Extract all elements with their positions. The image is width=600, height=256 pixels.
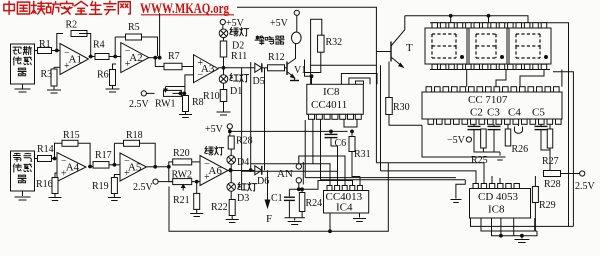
wire node to A3 minus [185,75,194,94]
wire A1 output to R4 [89,55,96,59]
7-segment digit 2 [469,28,507,64]
resistor R19 [92,178,117,194]
wire CC4011 pin down bus d [344,119,357,127]
svg-text:CD 4053: CD 4053 [478,191,519,203]
resistor R7 [164,51,182,70]
second vertical rail [380,65,382,171]
capacitor C3 [488,124,501,133]
right vertical rail B [553,72,573,222]
svg-text:D3: D3 [237,193,249,204]
vertical rail to T base [375,7,377,163]
svg-text:C1: C1 [271,193,283,204]
wire V1 collector node [304,60,306,73]
display top pin row [430,23,550,28]
right vertical rail A [550,23,569,222]
+5V terminal top [220,18,244,29]
title www.MKAQ.org (red) [140,1,234,17]
svg-text:R18: R18 [126,130,143,141]
display top wire [405,14,528,23]
svg-text:R25: R25 [471,155,488,166]
transistor T [376,16,413,67]
buzzer 蜂鸣器 [255,15,301,44]
transistor V1 [287,43,306,78]
svg-text:C5: C5 [532,107,545,119]
resistor R24 [299,189,322,211]
ground below R22 [226,216,239,223]
bus wire mid 3 [305,177,456,179]
wire +5V to green lamp D2 [222,25,224,29]
CD4053 bottom wire 1 [471,218,574,226]
CD4053 pin stubs down [501,218,514,236]
ground below R6 [106,86,120,93]
CD4053 top pins [473,184,519,189]
wire sensor to R1 [35,50,38,52]
resistor R12 [268,52,285,71]
display right wire [561,70,563,87]
2.5V terminal right [575,171,596,192]
svg-text:A1: A1 [69,54,82,66]
svg-text:R4: R4 [93,40,105,51]
svg-text:IC8: IC8 [323,86,340,98]
resistor R18 feedback [124,130,143,146]
diode D5 [253,63,265,87]
svg-text:R16: R16 [36,179,53,190]
CC4011 bottom pins [309,114,362,119]
svg-text:2.5V: 2.5V [575,181,596,192]
display wires to CC7107 [467,70,544,87]
svg-text:C6: C6 [335,138,347,149]
svg-text:R24: R24 [306,198,323,209]
green lamp D2 绿灯 [219,27,248,37]
CD4053 bottom wire 2 [481,218,535,231]
wire R20 RW2 right to A6 minus [192,162,200,194]
bus wire mid 1 [376,162,470,164]
resistor R29 [532,176,555,211]
bus wire mid 2 [381,170,467,172]
svg-text:R19: R19 [92,181,109,192]
-5V terminal [447,135,472,146]
svg-text:R31: R31 [354,149,371,160]
green lamp D4 绿灯 [205,146,250,168]
svg-text:R12: R12 [268,52,285,63]
resistor R28 (A6 branch) [228,136,252,150]
svg-text:R5: R5 [128,22,140,33]
svg-text:+5V: +5V [270,18,289,29]
svg-text:CC 7107: CC 7107 [468,94,508,106]
CC4013 bottom stem [328,213,332,233]
resistor R5 feedback [126,22,142,40]
diode D6 [255,166,269,187]
ground below V1 emitter [290,78,299,81]
wire D5 to R12 node [262,67,268,69]
potentiometer RW2 [172,170,193,191]
label D3 [237,193,249,204]
svg-text:C3: C3 [487,107,500,119]
wire junction to R20 RW2 node [160,162,173,182]
IC CD 4053 IC8 [470,189,531,219]
svg-text:R32: R32 [326,37,343,48]
wire 2.5V to RW1 [146,92,154,94]
resistor R3 [41,69,58,86]
svg-text:D1: D1 [230,86,242,97]
wire T emitter to R30 [388,62,390,98]
resistor R11 [220,41,247,62]
svg-text:A4: A4 [66,162,80,174]
label D2 [232,41,244,52]
resistor R21 [173,193,200,209]
wire A4 out to R17 [88,165,93,169]
wire junction down to R7 [155,58,164,67]
svg-text:RW2: RW2 [172,170,193,181]
svg-text:F: F [266,213,272,225]
resistor R15 feedback [62,130,80,146]
svg-text:R28: R28 [544,179,561,190]
wire C5 R27 join [541,133,550,150]
wire R2 to A1 output [79,34,91,57]
ground below gas sensor [15,84,31,92]
signal arrow F [265,170,272,225]
ground below R3 [47,86,61,93]
svg-text:R28: R28 [236,136,253,147]
CC4013 top pins [327,186,362,191]
capacitor C4 [515,124,523,133]
svg-text:A2: A2 [129,52,142,64]
svg-text:CC4011: CC4011 [311,99,347,111]
ground below R16 [49,194,62,201]
wire CC4011 pin down bus b [312,119,314,164]
wire R5 to A2 output [115,37,157,56]
svg-text:A5: A5 [128,162,142,174]
svg-text:+5V: +5V [226,18,245,29]
svg-text:2.5V: 2.5V [129,99,150,110]
capacitor C5 [535,124,548,133]
IC U-IC8 CC4011 [307,84,364,114]
wire A6 output junction [228,168,255,172]
CD4053 bottom wire 3 [492,218,538,238]
svg-text:2.5V: 2.5V [133,182,154,193]
bottom rail C1 R24 [285,212,305,218]
wire R7 to A3 plus [182,66,194,68]
2.5V terminal at RW2 [133,179,158,193]
op-amp A3 [194,55,219,83]
svg-text:IC4: IC4 [336,202,353,214]
wire C6 bottom [331,138,338,171]
ground below C1 R24 [288,218,302,225]
wire R11 to A3 output junction [222,57,226,70]
+5V bus wire to right [228,129,348,136]
wire RW1 to R8 node [173,92,187,96]
wire A3 row extension to T base rail [311,64,376,66]
capacitor C2 [468,124,481,133]
svg-text:R8: R8 [192,97,204,108]
oxygen sensor box 氧气传感器 [11,151,35,191]
wire A2 output junction [149,56,162,60]
svg-text:IC8: IC8 [488,204,505,216]
ground under R25 area [495,152,506,160]
svg-text:D5: D5 [253,76,265,87]
svg-text:R2: R2 [66,20,78,31]
ground below R19 [108,194,121,201]
red lamp D1 红灯 [219,68,248,83]
CC4011 top hook wires [341,74,377,85]
gas sensor box 瓦斯传感器 [11,44,35,84]
svg-text:R29: R29 [539,200,556,211]
resistor R20 [173,148,192,165]
7-segment digit 3 [509,28,551,64]
ground below R8 [179,112,192,118]
svg-text:D2: D2 [232,41,244,52]
resistor R17 [93,150,112,168]
resistor R10 [203,83,227,102]
svg-text:R15: R15 [63,130,80,141]
ground below R10 [217,102,231,116]
svg-text:−5V: −5V [447,135,466,146]
CC7107 top pins [426,87,559,92]
svg-text:+5V: +5V [205,124,224,135]
op-amp A5 [120,153,146,181]
wire C2 C3 R25 join [474,133,500,152]
IC CC 7107 [422,92,562,119]
wire A2 plus to R6 [113,64,117,70]
wire A4 plus to R16 [55,173,57,178]
bus wire mid 4 [321,179,466,181]
resistor R4 [93,40,109,60]
vertical bus wire x250 [250,62,252,170]
CC4013 top hook wires [242,156,360,189]
wire A3 output [218,67,254,69]
resistor R28 right [544,171,580,191]
svg-text:AN: AN [277,168,293,180]
resistor R26 [505,124,528,155]
svg-text:C2: C2 [470,107,483,119]
red lamp D3 红灯 [227,171,257,192]
svg-text:A3: A3 [201,63,215,75]
right rails join bottom wire [569,222,574,227]
svg-text:R20: R20 [173,148,190,159]
wire D4 to A6 output junction [229,164,233,172]
resistor R1 [38,39,52,54]
resistor R22 [211,191,235,215]
resistor R2 feedback [66,20,88,37]
wire 2.5V to RW2 [158,181,173,183]
ground below CD4053 [514,236,529,243]
svg-text:R17: R17 [95,150,112,161]
wire A5 output junction [146,165,160,169]
wire R32 branch bridge [311,19,322,84]
wire D2 to R11 [223,38,225,41]
ground below R21 [190,209,203,216]
wire R3 to A1 plus input [54,67,60,69]
CD4053 input wires from left [466,163,500,184]
wire R31 bottom to CC4013 mesh [352,152,360,177]
wire -5V rail [422,125,497,157]
resistor R27 [542,124,559,167]
wire R15 to A4 output [78,143,90,166]
wire R32 down to V1 collector node [305,52,321,84]
svg-text:R3: R3 [41,69,53,80]
wire R14 to A4 with R15 tap [52,143,63,160]
svg-text:T: T [406,42,413,54]
wire CC4011 pin down bus a [304,120,306,178]
svg-text:A6: A6 [208,165,222,177]
op-amp A4 [57,153,86,182]
resistor R16 [36,178,58,194]
wire AN bottom rail [289,187,312,191]
display bottom pin row [430,64,550,69]
wire A2 output up to top rail [159,13,161,58]
svg-text:R1: R1 [39,39,51,50]
vertical bus wire x241 [241,68,243,190]
wire R18 right to A5 output [114,143,155,167]
svg-text:R30: R30 [393,102,410,113]
wire CC4011 pin down bus c [320,119,322,180]
left frame wire with riser [169,163,388,231]
wire R30 down to -5V rail [389,115,422,126]
label D1 [230,86,242,97]
title 中国煤矿安全生产网 (red) [4,1,130,14]
wire R1 to A1 with R2 tap [52,34,64,53]
svg-text:R26: R26 [512,144,529,155]
CC7107 bottom pins [428,119,561,124]
junction dots on +5V bus [329,130,354,134]
resistor R8 [183,96,204,112]
resistor R25 [471,129,488,166]
svg-text:RW1: RW1 [155,99,176,110]
2.5V terminal near RW1 [129,91,150,110]
buzzer terminal +5V [270,10,299,29]
resistor R31 [349,131,371,160]
svg-text:R6: R6 [97,70,109,81]
wire R17 to A5 with R18 tap [109,143,120,166]
resistor R32 [318,35,343,52]
ground below oxygen sensor [15,191,31,200]
wire A5 plus to R19 [114,175,120,178]
svg-text:R10: R10 [203,91,220,102]
svg-text:R22: R22 [211,202,228,213]
resistor R30 [386,98,410,115]
IC CC4013 IC4 [324,191,369,214]
top signal wire to display driver [237,6,377,8]
svg-text:R7: R7 [168,51,180,62]
op-amp A6 [200,156,228,186]
resistor R6 [97,70,116,86]
svg-text:R11: R11 [231,51,247,62]
svg-text:R14: R14 [37,144,54,155]
pushbutton AN [277,156,315,189]
ground near CD4053 [451,180,466,203]
wire R29 bottom [535,203,537,232]
wire sensor to R14 [35,158,38,160]
wire R27 to R28 [549,148,551,171]
svg-text:R21: R21 [173,195,190,206]
ground below CC4013 [353,213,366,222]
svg-text:C4: C4 [508,107,521,119]
capacitor C6 [325,131,347,149]
potentiometer RW1 [155,87,185,110]
7-segment digit 1 [425,28,467,64]
wire R4 to A2 with R5 tap [109,37,121,58]
wire D5 cathode to D6 cathode link [264,68,266,171]
capacitor C1 [271,189,295,218]
op-amp A1 [60,44,89,75]
wire R12 to V1 base [285,67,288,69]
+5V terminal above A6 [205,124,232,135]
op-amp A2 [121,43,149,73]
resistor R14 [37,144,54,162]
svg-text:D4: D4 [237,157,249,168]
